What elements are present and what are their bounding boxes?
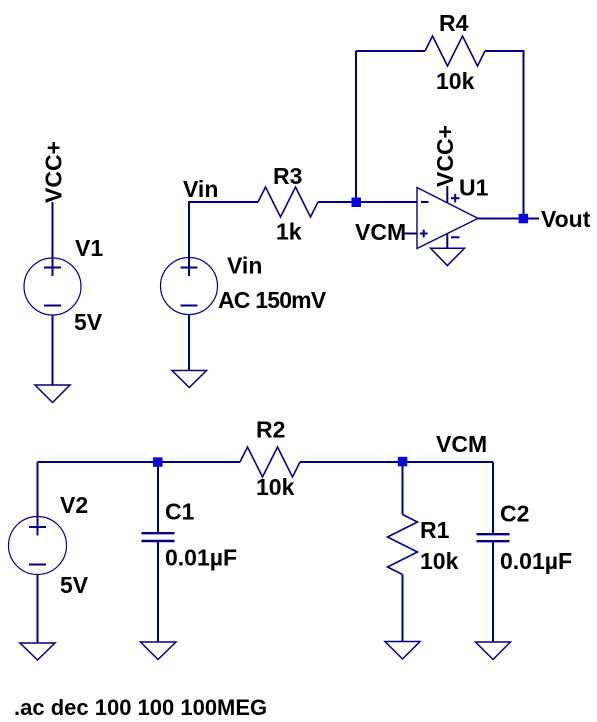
resistor R3 bbox=[258, 187, 318, 217]
capacitor C1 bbox=[142, 466, 175, 642]
wire V2 to ground bbox=[37, 575, 39, 644]
wire R4 right bbox=[485, 51, 524, 214]
wire R3 to op-amp bbox=[318, 201, 417, 203]
svg-text:5V: 5V bbox=[60, 572, 89, 598]
svg-text:V2: V2 bbox=[60, 492, 88, 518]
wire VCM stub bbox=[404, 233, 417, 235]
svg-text:5V: 5V bbox=[74, 309, 103, 335]
svg-text:AC 150mV: AC 150mV bbox=[218, 287, 327, 313]
op-amp U1 triangle bbox=[417, 188, 478, 249]
wire Vin node bbox=[189, 202, 258, 257]
op-amp inverting input marker bbox=[421, 201, 429, 203]
svg-text:10k: 10k bbox=[420, 548, 459, 574]
wire V2 top bbox=[37, 462, 39, 517]
ground (C1) bbox=[141, 642, 177, 660]
resistor R4 bbox=[425, 36, 485, 66]
wire Vin to ground bbox=[188, 315, 190, 371]
svg-text:R1: R1 bbox=[420, 517, 450, 543]
svg-text:V1: V1 bbox=[75, 235, 103, 261]
wire bottom rail right bbox=[300, 461, 493, 463]
svg-text:Vout: Vout bbox=[541, 206, 591, 232]
svg-text:Vin: Vin bbox=[183, 176, 218, 202]
op-amp V- pin bbox=[446, 233, 448, 248]
svg-text:.ac dec 100 100 100MEG: .ac dec 100 100 100MEG bbox=[14, 695, 267, 720]
ground (V1) bbox=[35, 385, 70, 403]
svg-text:R2: R2 bbox=[256, 417, 285, 443]
svg-text:U1: U1 bbox=[459, 175, 489, 201]
svg-text:C1: C1 bbox=[165, 499, 195, 525]
wire R4 left bbox=[356, 50, 425, 52]
wire V1 to ground bbox=[52, 315, 54, 385]
wire VCC+ to V1 bbox=[52, 202, 54, 260]
capacitor C2 bbox=[477, 462, 510, 642]
svg-text:VCC+: VCC+ bbox=[432, 125, 458, 187]
resistor R2 bbox=[240, 447, 300, 477]
svg-text:0.01µF: 0.01µF bbox=[500, 548, 572, 574]
ground (Vin) bbox=[172, 371, 207, 388]
node junction (C1) bbox=[153, 457, 163, 467]
svg-text:VCM: VCM bbox=[436, 431, 487, 457]
voltage source Vin bbox=[161, 258, 218, 315]
op-amp non-inverting input marker bbox=[420, 230, 428, 238]
node junction (inverting input) bbox=[352, 198, 362, 208]
svg-text:R4: R4 bbox=[439, 10, 469, 36]
svg-text:0.01µF: 0.01µF bbox=[165, 545, 237, 571]
ground (U1) bbox=[431, 248, 465, 265]
ground (C2) bbox=[476, 642, 511, 660]
svg-text:VCC+: VCC+ bbox=[41, 141, 67, 203]
node junction (output) bbox=[519, 214, 529, 224]
resistor R1 bbox=[402, 466, 404, 515]
svg-text:R3: R3 bbox=[273, 163, 302, 189]
svg-text:1k: 1k bbox=[276, 219, 302, 245]
svg-text:VCM: VCM bbox=[355, 219, 406, 245]
node junction (VCM) bbox=[398, 457, 408, 467]
voltage source V1 bbox=[24, 258, 81, 315]
voltage source V2 bbox=[9, 517, 67, 575]
svg-text:10k: 10k bbox=[436, 68, 475, 94]
op-amp VCC pin bbox=[446, 186, 448, 202]
wire bottom rail left bbox=[38, 461, 241, 463]
wire junction to R4 bbox=[355, 51, 357, 202]
op-amp V- minus marker bbox=[451, 236, 460, 238]
svg-text:C2: C2 bbox=[500, 501, 529, 527]
op-amp VCC plus marker bbox=[451, 194, 460, 202]
wire op-amp output bbox=[478, 218, 539, 220]
svg-text:10k: 10k bbox=[256, 474, 295, 500]
ground (R1) bbox=[385, 642, 420, 660]
svg-text:Vin: Vin bbox=[227, 253, 262, 279]
ground (V2) bbox=[20, 643, 55, 660]
